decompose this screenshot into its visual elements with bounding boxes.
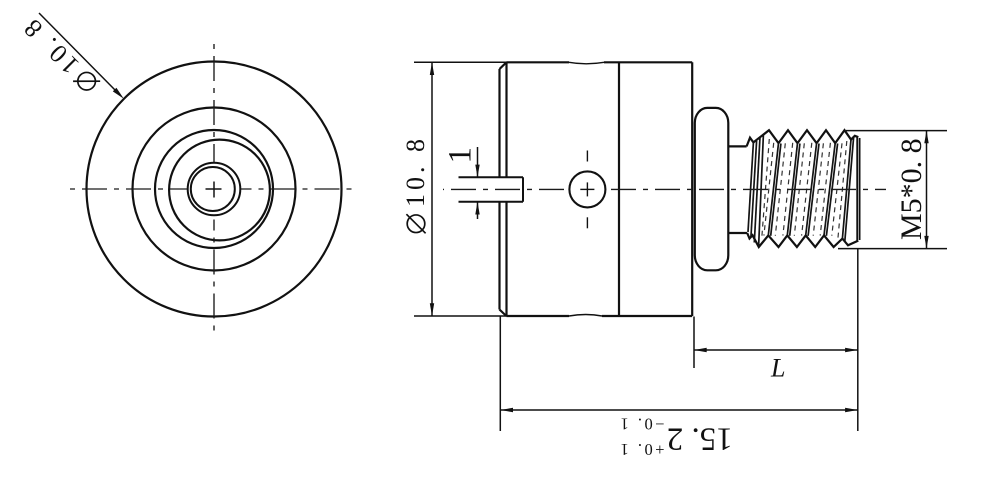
thread dashed root lines — [762, 139, 847, 239]
body bottom edge right part — [602, 315, 692, 317]
neck bottom line — [728, 232, 747, 234]
flank pair 2 — [787, 143, 797, 235]
flank pair 3 — [806, 143, 817, 235]
arrowheads — [430, 62, 929, 412]
right view main centerline — [443, 188, 564, 190]
body top edge — [507, 61, 570, 63]
dim 10.8 dimension line — [431, 62, 433, 316]
svg-text:+0. 1: +0. 1 — [618, 440, 665, 459]
body internal divider line — [618, 62, 620, 316]
dim 10.8 top extension line — [414, 61, 519, 63]
left view ring outer — [188, 163, 241, 216]
flank pair 5 end — [842, 140, 851, 239]
dim M5 dimension line — [926, 131, 928, 249]
flank pair 4 — [824, 143, 835, 235]
left view vertical centerline — [213, 44, 215, 163]
thread flank lines — [748, 135, 854, 247]
body bottom edge — [507, 315, 570, 317]
arrow 15.2 right — [845, 408, 858, 412]
left view horizontal centerline — [70, 188, 187, 190]
arrow 10.8 bottom — [430, 303, 434, 316]
runout flank d — [759, 135, 764, 247]
body top edge wave break — [569, 62, 604, 64]
left view ring inner — [191, 167, 235, 211]
body bottom edge wave break — [569, 315, 602, 317]
dim M5 bottom extension — [838, 248, 947, 250]
dim 15.2 dimension line — [500, 409, 858, 411]
arrow pin-1 down — [475, 165, 479, 178]
dim L right extension / thread end extension — [857, 249, 859, 431]
neck top line — [728, 145, 747, 147]
dim text 10.8 vertical — [401, 135, 430, 233]
svg-text:10. 8: 10. 8 — [401, 135, 430, 207]
dim L left extension — [693, 317, 695, 369]
body top edge right part — [604, 61, 692, 63]
svg-text:L: L — [770, 354, 785, 383]
svg-text:M5*0. 8: M5*0. 8 — [895, 138, 928, 240]
left view center mark cross vertical — [213, 182, 215, 198]
center hole cross vertical — [586, 182, 588, 196]
left view horizontal centerline right segment — [241, 188, 354, 190]
body flange right line — [505, 62, 507, 316]
dim 10.8 bottom extension line — [414, 315, 507, 317]
center hole vertical dash above — [586, 151, 588, 162]
arrow L right — [845, 348, 858, 352]
svg-text:10. 8: 10. 8 — [16, 11, 85, 80]
electrode pin outline — [459, 177, 524, 202]
arrow M5 top — [924, 131, 928, 144]
leader line for diameter 10.8 — [39, 13, 117, 92]
runout flank c — [754, 137, 760, 243]
flange bottom chamfer — [500, 310, 507, 317]
arrow 10.8 top — [430, 62, 434, 75]
svg-text:1: 1 — [443, 147, 479, 164]
dim text 15.2 with tolerance, rotated 180 — [618, 415, 733, 460]
left view center mark cross horizontal — [206, 188, 222, 190]
dim 15.2 left extension — [499, 317, 501, 432]
arrow L left — [694, 348, 707, 352]
runout flank b — [751, 141, 757, 238]
leader text diameter symbol — [16, 11, 103, 98]
arrow pin-1 up — [475, 202, 479, 215]
left view vertical centerline lower segment — [213, 220, 215, 335]
left view eccentric circle — [169, 140, 270, 241]
dim 1 upper line — [477, 147, 479, 177]
center hole vertical dash below — [586, 217, 588, 228]
runout flank a — [748, 142, 753, 232]
svg-text:−0. 1: −0. 1 — [618, 415, 665, 434]
svg-text:15. 2: 15. 2 — [667, 421, 733, 457]
body right edge — [691, 62, 693, 316]
flank pair 1 — [768, 143, 778, 235]
body flange left edge line — [498, 69, 500, 310]
flange top chamfer — [500, 62, 507, 69]
arrow 15.2 left — [500, 408, 513, 412]
center hole cross horizontal — [580, 188, 594, 190]
left view outer circle — [87, 62, 342, 317]
thread bottom crest profile — [747, 233, 858, 247]
arrow M5 bottom — [924, 236, 928, 249]
right view main centerline right segment — [611, 188, 886, 190]
dim 1 lower line — [477, 202, 479, 219]
leader arrowhead — [113, 88, 124, 99]
left view circle 2 — [133, 108, 296, 271]
left view circle 3 — [155, 130, 273, 248]
center hole circle — [569, 171, 605, 207]
collar rounded flange — [695, 108, 729, 270]
dim M5 top extension — [846, 130, 947, 132]
thread top crest profile — [747, 130, 859, 146]
thread end face — [857, 137, 859, 240]
dim L dimension line — [694, 349, 858, 351]
